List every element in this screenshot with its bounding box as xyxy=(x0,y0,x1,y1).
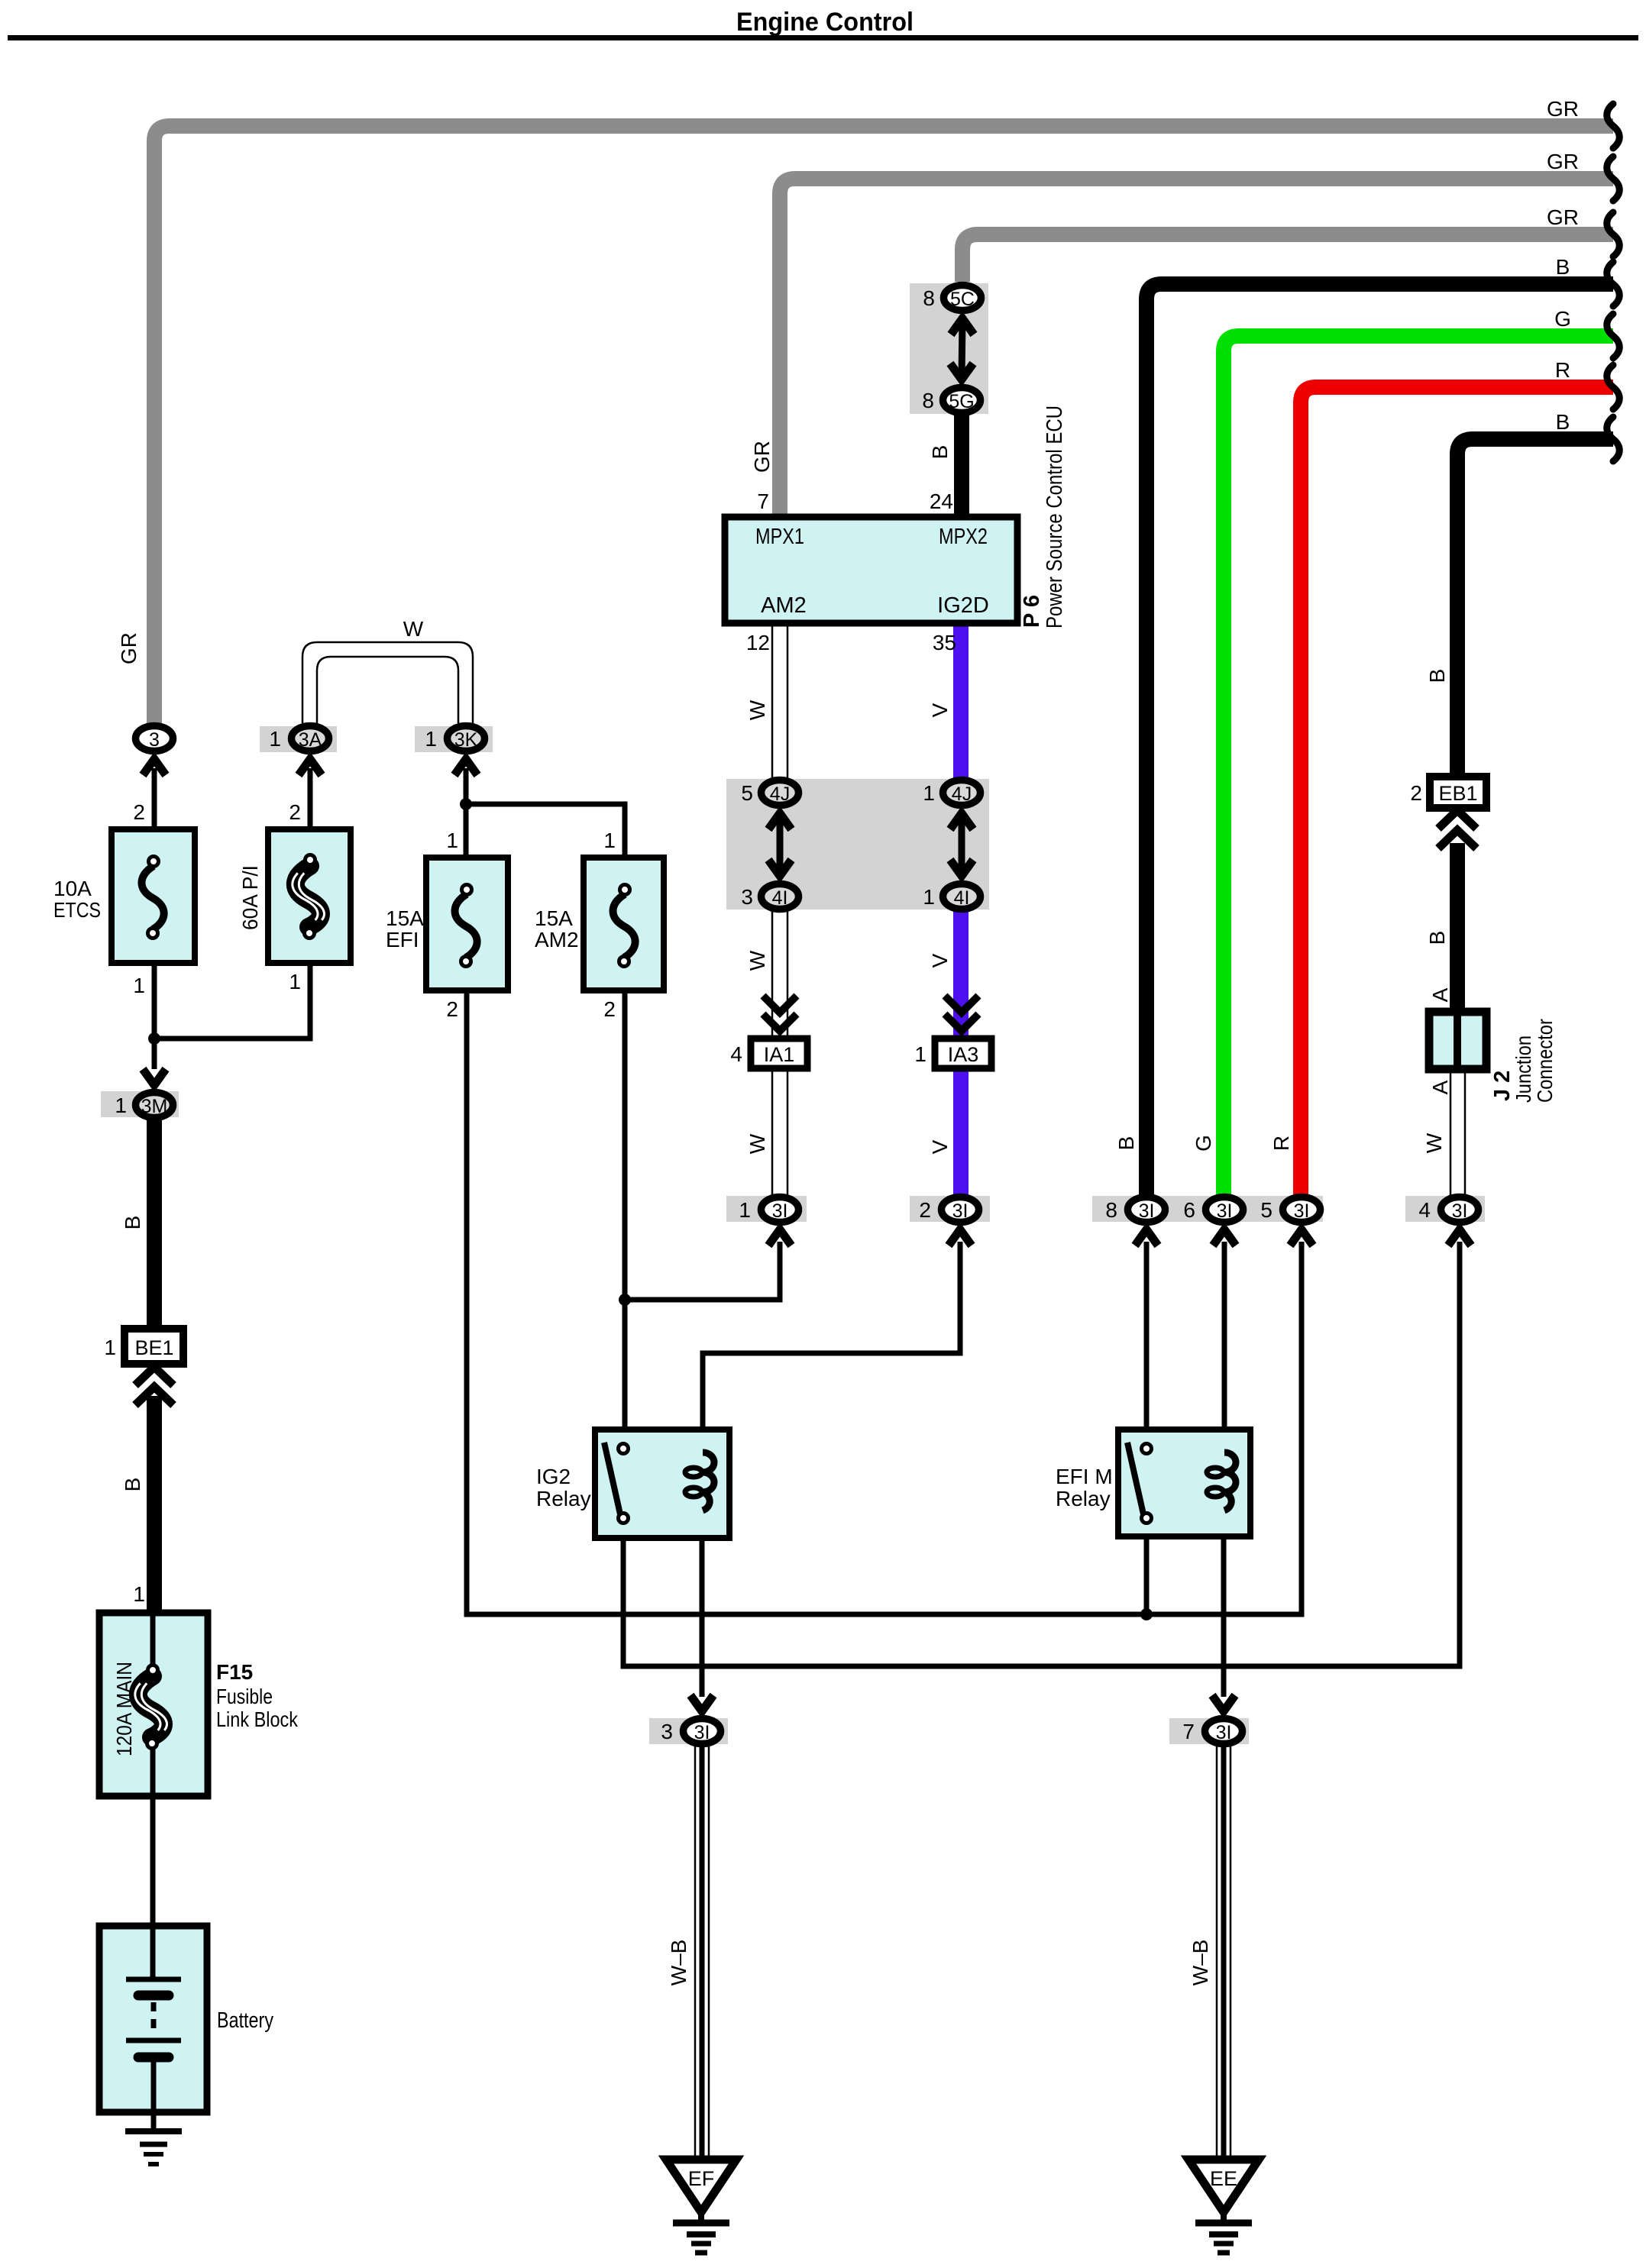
svg-text:GR: GR xyxy=(750,441,774,473)
fuse 10A ETCS box xyxy=(112,829,195,963)
svg-text:3: 3 xyxy=(741,885,753,909)
svg-text:7: 7 xyxy=(757,489,769,513)
connector 7 3I ellipse xyxy=(1205,1719,1243,1744)
connector 1 3I ellipse xyxy=(762,1197,799,1223)
wire thin: 6 3I down to EFI M relay coil xyxy=(1222,1242,1227,1452)
wire B2 black: EB1/J2 column up and across to right edge xyxy=(1457,439,1613,777)
wire thin: connector 3A to 60A P/I fuse xyxy=(308,768,313,832)
svg-text:3I: 3I xyxy=(772,1200,788,1222)
svg-text:AM2: AM2 xyxy=(535,928,579,951)
gray strip behind connector 4 3I xyxy=(1405,1196,1485,1222)
svg-text:1: 1 xyxy=(289,970,301,993)
svg-text:B: B xyxy=(121,1478,144,1492)
svg-text:1: 1 xyxy=(104,1336,116,1359)
gray strip behind connector 3K xyxy=(415,726,493,752)
svg-text:15A: 15A xyxy=(386,906,424,930)
wire W white: J2 junction connector down to 4 3I xyxy=(1450,1069,1465,1196)
off-page squiggle wire B2 xyxy=(1607,417,1620,461)
wire V violet ECU pin 35 to 4J xyxy=(953,623,969,779)
double arrow between 5C and 5G xyxy=(950,318,974,380)
svg-text:8: 8 xyxy=(1105,1198,1117,1222)
off-page squiggle wire G xyxy=(1607,314,1620,358)
wire thin: 60A P/I fuse down and left to node on ETCS column xyxy=(154,960,310,1039)
svg-text:GR: GR xyxy=(117,632,141,664)
wire thin: 8 3I down to EFI M relay switch xyxy=(1144,1242,1150,1445)
wire thin: EFI M relay switch bottom to y2114 run xyxy=(1144,1521,1150,1614)
svg-text:4J: 4J xyxy=(952,783,972,805)
svg-text:W: W xyxy=(745,950,769,971)
relay EFI M coil xyxy=(1207,1452,1236,1510)
battery internals xyxy=(126,1929,181,2131)
svg-text:R: R xyxy=(1269,1136,1293,1151)
gray strip behind connector 2 3I xyxy=(910,1196,990,1222)
connector IA3 box xyxy=(935,1039,991,1068)
junction dot EFI M relay switch on y2114 run xyxy=(1140,1608,1153,1620)
svg-text:A: A xyxy=(1428,1080,1452,1094)
arrow up into 1 3I xyxy=(768,1229,791,1245)
svg-text:B: B xyxy=(1114,1136,1138,1151)
svg-text:B: B xyxy=(1425,931,1449,945)
svg-text:EF: EF xyxy=(688,2167,715,2190)
svg-text:G: G xyxy=(1554,307,1571,331)
gray strip behind connector 3M xyxy=(101,1091,179,1117)
svg-text:12: 12 xyxy=(746,631,770,654)
svg-text:F15: F15 xyxy=(216,1660,253,1684)
fuse 15A EFI box xyxy=(426,858,508,990)
svg-text:1: 1 xyxy=(603,829,616,852)
connector 8 3I ellipse xyxy=(1128,1197,1166,1223)
fuse 15A AM2 element xyxy=(613,885,635,967)
wire B black 5G to ECU pin 24 xyxy=(954,412,969,517)
svg-text:5: 5 xyxy=(741,781,753,805)
wire GR1 gray: node 3 column up and across top to right edge xyxy=(154,126,1613,723)
svg-text:IG2D: IG2D xyxy=(937,593,989,618)
connector 3M ellipse xyxy=(136,1093,173,1118)
svg-text:35: 35 xyxy=(933,631,956,654)
svg-text:BE1: BE1 xyxy=(134,1336,173,1359)
wire B thick EB1 chevrons to J2 xyxy=(1450,843,1465,1012)
fusible link 60A P/I element xyxy=(293,855,325,939)
svg-text:60A P/I: 60A P/I xyxy=(238,865,262,930)
wire B thick 3M to BE1 xyxy=(147,1116,162,1329)
svg-text:1: 1 xyxy=(115,1094,127,1117)
title underline xyxy=(8,35,1638,40)
svg-text:Power Source Control ECU: Power Source Control ECU xyxy=(1043,405,1067,628)
wire thin F15 bottom to battery xyxy=(150,1743,156,1928)
relay EFI M switch xyxy=(1127,1443,1152,1523)
double chevron below EB1 xyxy=(1438,810,1476,848)
fusible link 120A MAIN element xyxy=(135,1665,167,1749)
fuse 15A EFI element xyxy=(454,885,477,967)
connector 5 3I ellipse xyxy=(1283,1197,1321,1223)
junction connector J2 box xyxy=(1429,1012,1486,1069)
ground EF triangle xyxy=(666,2160,736,2253)
arrow up into 4 3I xyxy=(1448,1229,1471,1245)
wire B1 black: 8 3I column up and across to right edge xyxy=(1146,284,1613,1194)
arrow up into 8 3I xyxy=(1135,1229,1158,1245)
off-page squiggle wire GR1 xyxy=(1607,104,1620,148)
svg-text:V: V xyxy=(928,1139,952,1154)
svg-text:120A MAIN: 120A MAIN xyxy=(112,1662,136,1756)
junction dot below 3K xyxy=(460,798,472,810)
svg-text:6: 6 xyxy=(1183,1198,1195,1222)
wire thin inside F15 top xyxy=(150,1613,156,1666)
svg-text:GR: GR xyxy=(1547,150,1579,173)
svg-text:2: 2 xyxy=(446,997,458,1021)
svg-text:3I: 3I xyxy=(952,1200,969,1222)
svg-text:EE: EE xyxy=(1210,2167,1237,2190)
svg-text:4J: 4J xyxy=(770,783,790,805)
svg-text:7: 7 xyxy=(1182,1720,1195,1743)
arrow up into 2 3I xyxy=(949,1229,972,1245)
svg-text:W: W xyxy=(1422,1132,1446,1153)
svg-text:Battery: Battery xyxy=(217,2008,273,2033)
svg-text:4: 4 xyxy=(730,1042,742,1066)
gray strip behind connector 3 3I xyxy=(649,1718,728,1744)
svg-text:Junction: Junction xyxy=(1512,1035,1535,1103)
svg-text:W–B: W–B xyxy=(1188,1940,1212,1986)
wire W white: ECU AM2 pin 12 down to 4J xyxy=(772,623,787,779)
double chevron into IA3 xyxy=(945,996,978,1031)
svg-text:1: 1 xyxy=(739,1198,751,1222)
connector 4J left ellipse xyxy=(762,780,799,806)
svg-text:W–B: W–B xyxy=(667,1940,690,1986)
svg-text:V: V xyxy=(928,953,952,968)
connector 3 3I ellipse xyxy=(684,1719,721,1744)
svg-text:3M: 3M xyxy=(141,1096,168,1117)
connector 3K ellipse xyxy=(448,726,485,751)
connector 4I left ellipse xyxy=(762,884,799,909)
ECU P6 Power Source Control ECU box xyxy=(725,517,1017,623)
connector 6 3I ellipse xyxy=(1206,1197,1243,1223)
svg-text:A: A xyxy=(1428,987,1452,1002)
svg-text:5: 5 xyxy=(1260,1198,1272,1222)
wire thin: connector 3K down to junction xyxy=(464,768,469,861)
svg-text:1: 1 xyxy=(923,781,935,805)
svg-text:EB1: EB1 xyxy=(1438,782,1477,805)
double arrow between 4J and 4I left xyxy=(768,813,791,876)
svg-text:GR: GR xyxy=(1547,97,1579,121)
svg-text:EFI M: EFI M xyxy=(1056,1465,1113,1488)
svg-text:B: B xyxy=(1425,669,1449,683)
svg-text:3I: 3I xyxy=(694,1722,710,1743)
svg-text:AM2: AM2 xyxy=(761,593,807,618)
svg-text:3K: 3K xyxy=(454,729,478,751)
battery box xyxy=(99,1926,207,2112)
gray shield block behind 4J/4I connectors xyxy=(726,779,989,909)
arrow up into connector 3A xyxy=(299,759,322,775)
relay EFI M box xyxy=(1118,1430,1250,1536)
off-page squiggle wire R xyxy=(1607,365,1620,409)
svg-text:MPX1: MPX1 xyxy=(755,525,804,549)
wire thin: branch from 3K junction to 15A AM2 fuse xyxy=(466,804,625,861)
gray strip behind connectors 8,6,5 3I xyxy=(1092,1196,1323,1222)
svg-text:2: 2 xyxy=(133,800,145,824)
arrow down into 3 3I xyxy=(690,1695,713,1711)
svg-text:8: 8 xyxy=(922,389,934,412)
svg-text:P 6: P 6 xyxy=(1020,595,1044,628)
svg-text:1: 1 xyxy=(425,727,437,751)
svg-text:IG2: IG2 xyxy=(536,1465,571,1488)
relay IG2 box xyxy=(595,1430,729,1538)
wire GR2 gray: MPX1 pin 7 column up and across to right edge xyxy=(780,179,1613,517)
svg-text:IA3: IA3 xyxy=(948,1043,979,1066)
svg-text:MPX2: MPX2 xyxy=(939,525,988,549)
svg-text:B: B xyxy=(928,445,952,460)
fusible link 60A P/I box xyxy=(268,829,351,963)
svg-text:1: 1 xyxy=(923,885,935,909)
wire R red: 5 3I column up and across to right edge xyxy=(1301,387,1613,1194)
off-page squiggle wire B1 xyxy=(1607,262,1620,306)
svg-text:EFI: EFI xyxy=(386,928,419,951)
connector 4 3I ellipse xyxy=(1441,1197,1479,1223)
relay IG2 switch xyxy=(604,1443,629,1523)
connector 5C ellipse xyxy=(944,286,981,311)
wire thin: EFI M relay coil bottom down to 7 3I arrow xyxy=(1221,1510,1227,1697)
svg-text:Relay: Relay xyxy=(536,1487,591,1510)
wire W white: IA1 down to 1 3I xyxy=(772,1068,787,1196)
ground EE triangle xyxy=(1188,2160,1259,2253)
ground symbol below battery xyxy=(125,2131,182,2164)
svg-text:1: 1 xyxy=(133,974,145,997)
svg-text:10A: 10A xyxy=(53,877,92,900)
off-page squiggle wire GR2 xyxy=(1607,157,1620,201)
svg-text:B: B xyxy=(121,1216,144,1230)
wire W white: arc from 3A to 3K inner edge xyxy=(317,657,458,723)
fusible link block F15 box xyxy=(99,1613,208,1796)
svg-text:Fusible: Fusible xyxy=(216,1685,273,1708)
wire thin: 15A EFI fuse down to horizontal run y2114 xyxy=(467,987,1302,1614)
junction dot on AM2-IG2 column xyxy=(619,1294,631,1306)
svg-text:8: 8 xyxy=(923,286,935,310)
relay IG2 coil xyxy=(685,1452,714,1510)
gray strip behind connector 1 3I xyxy=(726,1196,807,1222)
fuse 10A ETCS element xyxy=(141,857,163,939)
svg-text:W: W xyxy=(745,1133,769,1154)
connector IA1 box xyxy=(751,1039,807,1068)
wire V violet IA3 to 2 3I xyxy=(953,1068,969,1196)
connector 3 ellipse xyxy=(136,726,173,751)
svg-text:B: B xyxy=(1556,410,1570,434)
connector BE1 box xyxy=(125,1329,183,1364)
connector 5G ellipse xyxy=(943,388,981,413)
svg-text:2: 2 xyxy=(603,997,616,1021)
svg-text:W: W xyxy=(403,617,424,641)
svg-text:2: 2 xyxy=(919,1198,931,1222)
svg-text:3I: 3I xyxy=(1216,1722,1232,1743)
svg-text:5C: 5C xyxy=(950,289,975,310)
svg-text:Relay: Relay xyxy=(1056,1487,1111,1510)
double chevron below BE1 xyxy=(135,1367,173,1405)
gray strip behind connector 3A xyxy=(260,726,337,752)
connector 4I right ellipse xyxy=(943,884,981,909)
wire thin: IG2 relay switch bottom down across to 4 3I xyxy=(623,1242,1460,1666)
wire thin: 10A ETCS fuse to 3M arrow xyxy=(152,960,157,1069)
wire V violet 4I to IA3 xyxy=(953,910,969,1039)
svg-text:1: 1 xyxy=(914,1042,926,1066)
arrow down into connector 3M xyxy=(143,1069,166,1085)
wire G green: 6 3I column up and across to right edge xyxy=(1224,336,1613,1194)
wire thin: connector 3 to 10A ETCS fuse xyxy=(152,768,157,832)
svg-text:ETCS: ETCS xyxy=(53,898,101,922)
gray strip behind connector 7 3I xyxy=(1169,1718,1249,1744)
wire W white: arc from 3A to 3K outer edge xyxy=(302,642,473,723)
fuse 15A AM2 box xyxy=(584,858,664,990)
double chevron into IA1 xyxy=(763,996,797,1031)
connector 3A ellipse xyxy=(292,726,329,751)
arrow up into connector 3K xyxy=(454,759,477,775)
svg-text:GR: GR xyxy=(1547,205,1579,229)
svg-text:G: G xyxy=(1192,1135,1215,1152)
wire thin: 15A AM2 fuse down to IG2 relay switch xyxy=(623,987,628,1445)
wire thin: IG2 relay coil top up and right to 2 3I xyxy=(703,1242,960,1452)
svg-text:1: 1 xyxy=(446,829,458,852)
svg-text:1: 1 xyxy=(269,727,281,751)
svg-text:Engine Control: Engine Control xyxy=(736,8,914,37)
wire W-B: 3 3I down to EF ground xyxy=(695,1745,709,2160)
connector 2 3I ellipse xyxy=(942,1197,979,1223)
connector 4J right ellipse xyxy=(943,780,981,806)
svg-text:1: 1 xyxy=(133,1582,145,1606)
gray shield block behind 5C/5G xyxy=(910,283,988,414)
svg-text:4I: 4I xyxy=(772,887,788,909)
svg-text:3I: 3I xyxy=(1294,1200,1310,1222)
svg-text:Link Block: Link Block xyxy=(216,1707,299,1731)
double arrow between 4J and 4I right xyxy=(950,813,973,876)
svg-text:B: B xyxy=(1556,255,1570,279)
arrow down into 7 3I xyxy=(1212,1695,1235,1711)
svg-text:V: V xyxy=(928,703,952,717)
wire GR3 gray: 5C column up and across to right edge xyxy=(962,234,1613,282)
svg-text:IA1: IA1 xyxy=(764,1043,795,1066)
arrow up into 5 3I xyxy=(1290,1229,1313,1245)
svg-text:2: 2 xyxy=(1410,781,1422,805)
svg-text:15A: 15A xyxy=(535,906,573,930)
svg-text:W: W xyxy=(745,699,769,720)
svg-text:R: R xyxy=(1555,358,1570,382)
svg-text:3: 3 xyxy=(661,1720,673,1743)
junction dot at ETCS/PI column xyxy=(148,1032,160,1045)
svg-text:Connector: Connector xyxy=(1533,1019,1557,1103)
arrow up into connector 3 xyxy=(143,759,166,775)
arrow up into 6 3I xyxy=(1213,1229,1236,1245)
off-page squiggle wire GR3 xyxy=(1607,212,1620,257)
svg-text:2: 2 xyxy=(289,800,301,824)
wire W white: 4I down to IA1 xyxy=(772,910,787,1039)
svg-text:5G: 5G xyxy=(949,391,974,412)
connector EB1 box xyxy=(1430,777,1486,808)
wire thin: IG2 relay coil bottom down to 3 3I arrow xyxy=(700,1510,705,1697)
svg-text:3: 3 xyxy=(149,729,160,751)
svg-text:3I: 3I xyxy=(1452,1200,1468,1222)
svg-text:3I: 3I xyxy=(1217,1200,1233,1222)
wire B thick BE1 chevrons to F15 xyxy=(147,1396,162,1613)
svg-text:4I: 4I xyxy=(954,887,970,909)
wire W-B: 7 3I down to EE ground xyxy=(1217,1745,1230,2160)
svg-text:3I: 3I xyxy=(1139,1200,1155,1222)
svg-text:3A: 3A xyxy=(299,729,322,751)
wire thin: branch junction to 1 3I connector xyxy=(625,1242,780,1300)
svg-text:4: 4 xyxy=(1418,1198,1431,1222)
svg-text:24: 24 xyxy=(930,489,953,513)
